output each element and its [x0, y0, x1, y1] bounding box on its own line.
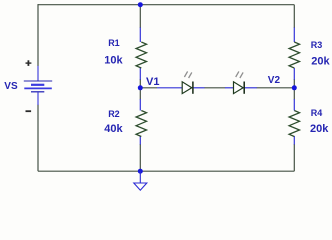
svg-text:R3: R3 — [311, 40, 323, 50]
resistor R2 — [136, 111, 146, 137]
svg-text:20k: 20k — [310, 123, 329, 135]
svg-text:R4: R4 — [311, 108, 323, 118]
pin lead D2 cathode — [244, 87, 256, 89]
pin lead R1 top — [139, 28, 141, 43]
svg-text:R2: R2 — [108, 109, 120, 119]
svg-text:V2: V2 — [268, 75, 281, 86]
ground — [134, 171, 147, 190]
svg-text:V1: V1 — [146, 76, 159, 88]
wire left upper (battery + up to top rail) — [37, 4, 39, 66]
wire middle branch between R1 and node V1 — [139, 79, 141, 100]
junction bottom rail / ground — [138, 169, 143, 174]
svg-text:10k: 10k — [104, 55, 123, 67]
battery minus polarity mark — [26, 110, 32, 112]
LED D2 — [234, 71, 245, 93]
wire right branch upper (top rail to R3) — [293, 5, 295, 28]
node V1 junction — [138, 85, 143, 90]
battery plus polarity mark — [26, 60, 32, 66]
pin lead R2 top — [139, 99, 141, 111]
pin lead R2 bottom — [139, 136, 141, 145]
wire middle branch upper (top rail to R1) — [139, 5, 141, 28]
LED D1 — [182, 71, 193, 93]
pin lead R4 bottom — [293, 136, 295, 145]
pin lead D1 cathode — [193, 87, 205, 89]
pin lead R4 top — [293, 99, 295, 111]
pin lead R1 bottom — [139, 68, 141, 80]
voltage source VS battery — [24, 66, 52, 105]
wire middle branch lower (R2 to bottom rail) — [139, 144, 141, 171]
wire D2 cathode to node V2 — [257, 87, 295, 89]
svg-text:40k: 40k — [104, 123, 123, 135]
resistor R3 — [289, 42, 299, 68]
pin lead D2 anode — [225, 87, 233, 89]
svg-text:VS: VS — [4, 81, 18, 92]
junction top rail / middle branch — [138, 2, 143, 7]
svg-text:R1: R1 — [108, 38, 120, 48]
wire top net from battery + to R1/R3 tops — [38, 4, 294, 6]
wire D1 cathode to D2 anode (middle segment) — [204, 87, 225, 89]
svg-text:20k: 20k — [311, 56, 330, 68]
pin lead R3 bottom — [293, 68, 295, 80]
resistor R1 — [136, 42, 146, 68]
wire V1 to D1 anode — [140, 87, 157, 89]
wire left lower (battery - down to bottom rail) — [37, 105, 39, 172]
wire right branch lower (R4 to bottom rail) — [293, 144, 295, 171]
node V2 junction — [292, 85, 297, 90]
pin lead D1 anode — [157, 87, 182, 89]
resistor R4 — [289, 111, 299, 137]
wire bottom net — [38, 170, 294, 172]
pin lead R3 top — [293, 28, 295, 43]
wire right branch between R3 and node V2 — [293, 79, 295, 100]
